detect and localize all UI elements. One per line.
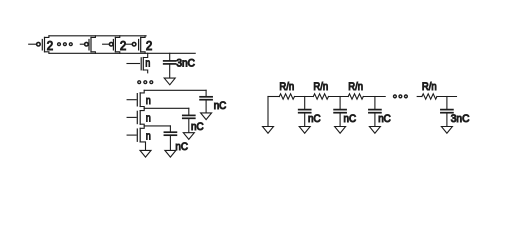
wire ladder input segment xyxy=(268,96,279,98)
transistor M5 (NMOS, width n) xyxy=(127,53,148,73)
svg-text:n: n xyxy=(146,113,151,125)
wire R2 to R3 xyxy=(329,96,349,98)
ground (under C5) xyxy=(335,127,346,134)
svg-text:nC: nC xyxy=(175,141,188,153)
wire R4 to output xyxy=(437,96,457,98)
wire node C to C3 xyxy=(144,125,170,127)
node dots (ellipsis, stack continues) xyxy=(137,80,153,84)
svg-text:3nC: 3nC xyxy=(451,113,470,125)
capacitor C2 nC xyxy=(183,108,195,132)
svg-text:R/n: R/n xyxy=(348,81,363,93)
svg-text:nC: nC xyxy=(191,121,204,133)
ground (under C0) xyxy=(164,78,175,85)
transistor M8 (NMOS, width n) xyxy=(127,126,145,150)
node dots (ladder continues) xyxy=(393,94,408,98)
transistor M7 (NMOS, width n) xyxy=(127,108,144,126)
transistor M1 (PMOS, width 2) xyxy=(29,36,49,54)
ground (under C6) xyxy=(369,127,380,134)
wire node B to C2 xyxy=(144,107,189,109)
ground (under C7) xyxy=(441,127,452,134)
capacitor C4 nC xyxy=(299,97,311,127)
node dots (ellipsis, series chain continues) xyxy=(57,42,73,46)
svg-text:nC: nC xyxy=(344,113,357,125)
ground (source of M8) xyxy=(140,150,151,157)
capacitor C5 nC xyxy=(334,97,346,127)
svg-text:n: n xyxy=(145,58,150,70)
resistor R4 R/n xyxy=(422,94,437,99)
wire dots to R4 xyxy=(417,96,422,98)
svg-text:3nC: 3nC xyxy=(176,57,195,69)
svg-text:2: 2 xyxy=(120,39,126,53)
ground (under C2) xyxy=(183,133,194,140)
svg-text:nC: nC xyxy=(308,113,321,125)
ground (under C4) xyxy=(299,127,310,134)
ground (ladder input) xyxy=(263,127,274,134)
resistor R2 R/n xyxy=(313,94,328,99)
capacitor C0 3nC xyxy=(164,53,176,78)
wire node A to C1 xyxy=(144,89,206,91)
capacitor C6 nC xyxy=(369,97,381,127)
wire top rail (drain rail of parallel chain) xyxy=(49,35,146,37)
transistor M3 (PMOS, width 2) xyxy=(103,36,120,54)
svg-text:R/n: R/n xyxy=(313,81,328,93)
ground (under C3) xyxy=(165,150,176,157)
transistor M6 (NMOS, width n) xyxy=(127,90,144,108)
resistor R1 R/n xyxy=(279,94,294,99)
svg-text:n: n xyxy=(146,95,151,107)
wire R1 to R2 xyxy=(295,96,314,98)
svg-text:2: 2 xyxy=(146,39,152,53)
svg-text:2: 2 xyxy=(47,39,53,53)
wire bottom rail (source rail, output node) xyxy=(49,52,195,54)
capacitor C7 3nC xyxy=(441,97,453,127)
ground (under C1) xyxy=(201,113,212,120)
svg-text:nC: nC xyxy=(378,113,391,125)
transistor M4 (PMOS, width 2) xyxy=(126,36,145,54)
svg-text:R/n: R/n xyxy=(279,81,294,93)
svg-text:nC: nC xyxy=(214,100,227,112)
wire input down lead xyxy=(267,97,269,127)
transistor M2 (PMOS) xyxy=(80,36,95,54)
svg-text:R/n: R/n xyxy=(422,81,437,93)
capacitor C1 nC xyxy=(200,90,212,113)
capacitor C3 nC xyxy=(164,126,176,150)
resistor R3 R/n xyxy=(348,94,363,99)
wire R3 to dots xyxy=(363,96,385,98)
svg-text:n: n xyxy=(146,130,151,142)
